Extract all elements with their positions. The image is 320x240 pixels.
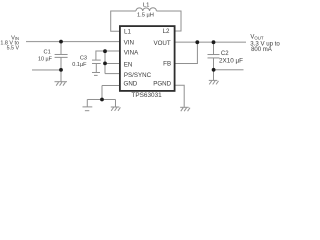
svg-text:C1: C1 xyxy=(44,49,51,55)
svg-text:800 mA: 800 mA xyxy=(251,47,272,53)
svg-text:1.5 µH: 1.5 µH xyxy=(137,13,154,19)
svg-text:5.5 V: 5.5 V xyxy=(7,46,20,52)
svg-text:L1: L1 xyxy=(124,29,131,36)
svg-text:VIN: VIN xyxy=(124,40,134,47)
svg-text:PGND: PGND xyxy=(153,81,171,88)
svg-text:L2: L2 xyxy=(163,28,170,35)
svg-text:C3: C3 xyxy=(80,56,87,62)
svg-text:FB: FB xyxy=(163,60,171,67)
svg-text:0.1µF: 0.1µF xyxy=(72,62,87,68)
svg-text:VINA: VINA xyxy=(124,50,139,57)
svg-text:VOUT: VOUT xyxy=(154,40,171,47)
svg-text:EN: EN xyxy=(124,61,133,68)
svg-text:TPS63031: TPS63031 xyxy=(131,92,162,99)
svg-text:C2: C2 xyxy=(221,51,229,57)
svg-text:L1: L1 xyxy=(143,2,150,8)
svg-text:PS/SYNC: PS/SYNC xyxy=(124,72,152,79)
svg-text:GND: GND xyxy=(123,81,137,88)
svg-text:10 µF: 10 µF xyxy=(38,57,53,63)
svg-text:2X10 µF: 2X10 µF xyxy=(219,58,243,65)
